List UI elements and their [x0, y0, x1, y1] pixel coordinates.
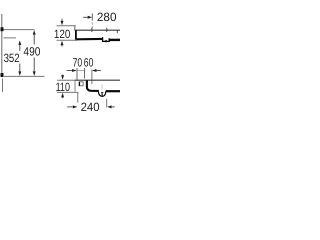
svg-text:280: 280: [97, 10, 117, 24]
svg-text:352: 352: [4, 51, 20, 65]
svg-text:70: 70: [73, 56, 83, 70]
svg-text:120: 120: [54, 27, 71, 41]
svg-text:110: 110: [56, 80, 71, 94]
svg-text:60: 60: [84, 56, 94, 70]
svg-text:490: 490: [23, 44, 40, 58]
svg-text:240: 240: [81, 100, 100, 114]
